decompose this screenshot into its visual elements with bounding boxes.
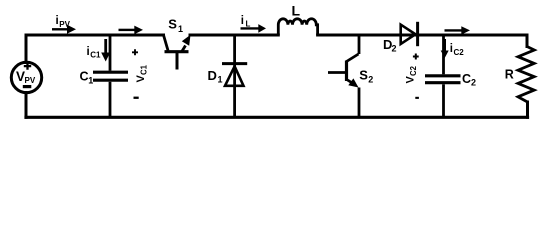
svg-text:S: S <box>359 67 368 82</box>
svg-text:PV: PV <box>25 76 36 85</box>
svg-text:C: C <box>462 72 471 86</box>
svg-text:i: i <box>241 15 244 27</box>
svg-text:R: R <box>505 68 514 82</box>
svg-text:1: 1 <box>178 24 183 34</box>
svg-text:2: 2 <box>392 44 397 54</box>
svg-text:C1: C1 <box>140 64 149 75</box>
current arrow i_PV <box>52 15 76 34</box>
transistor S2 <box>328 35 373 117</box>
wire top-left segment <box>26 34 164 37</box>
svg-text:C: C <box>80 70 89 84</box>
current arrow into S1 <box>119 26 144 35</box>
svg-text:D: D <box>208 68 217 83</box>
capacitor C1 <box>80 35 129 117</box>
source V_PV <box>11 62 41 92</box>
wire left vertical bottom <box>25 93 28 118</box>
wire top middle segment <box>190 34 278 37</box>
transistor S1 <box>164 17 191 70</box>
svg-text:C2: C2 <box>409 65 418 76</box>
current arrow i_L <box>241 15 267 33</box>
diode D1 <box>208 35 248 117</box>
resistor R <box>505 47 535 103</box>
label + V_C1 - <box>132 49 149 99</box>
current arrow i_C2 <box>441 39 465 58</box>
wire bottom segment <box>26 116 528 119</box>
capacitor C2 <box>425 35 476 117</box>
svg-text:2: 2 <box>471 78 476 88</box>
wire right vertical bottom <box>526 102 529 117</box>
svg-text:S: S <box>168 17 177 32</box>
label + V_C2 - <box>404 54 419 99</box>
svg-text:1: 1 <box>218 75 223 85</box>
current arrow output <box>445 26 471 34</box>
svg-text:i: i <box>56 15 59 27</box>
current arrow i_C1 <box>87 39 111 62</box>
wire top segment inductor to D2 <box>318 34 527 37</box>
diode D2 <box>383 22 418 54</box>
svg-text:C1: C1 <box>90 51 101 60</box>
wire left vertical top <box>25 35 28 63</box>
svg-text:1: 1 <box>88 75 93 85</box>
inductor L <box>278 3 317 36</box>
svg-text:2: 2 <box>368 75 373 85</box>
svg-text:L: L <box>292 3 301 19</box>
svg-text:C2: C2 <box>454 48 465 57</box>
wire right vertical top <box>526 35 529 47</box>
